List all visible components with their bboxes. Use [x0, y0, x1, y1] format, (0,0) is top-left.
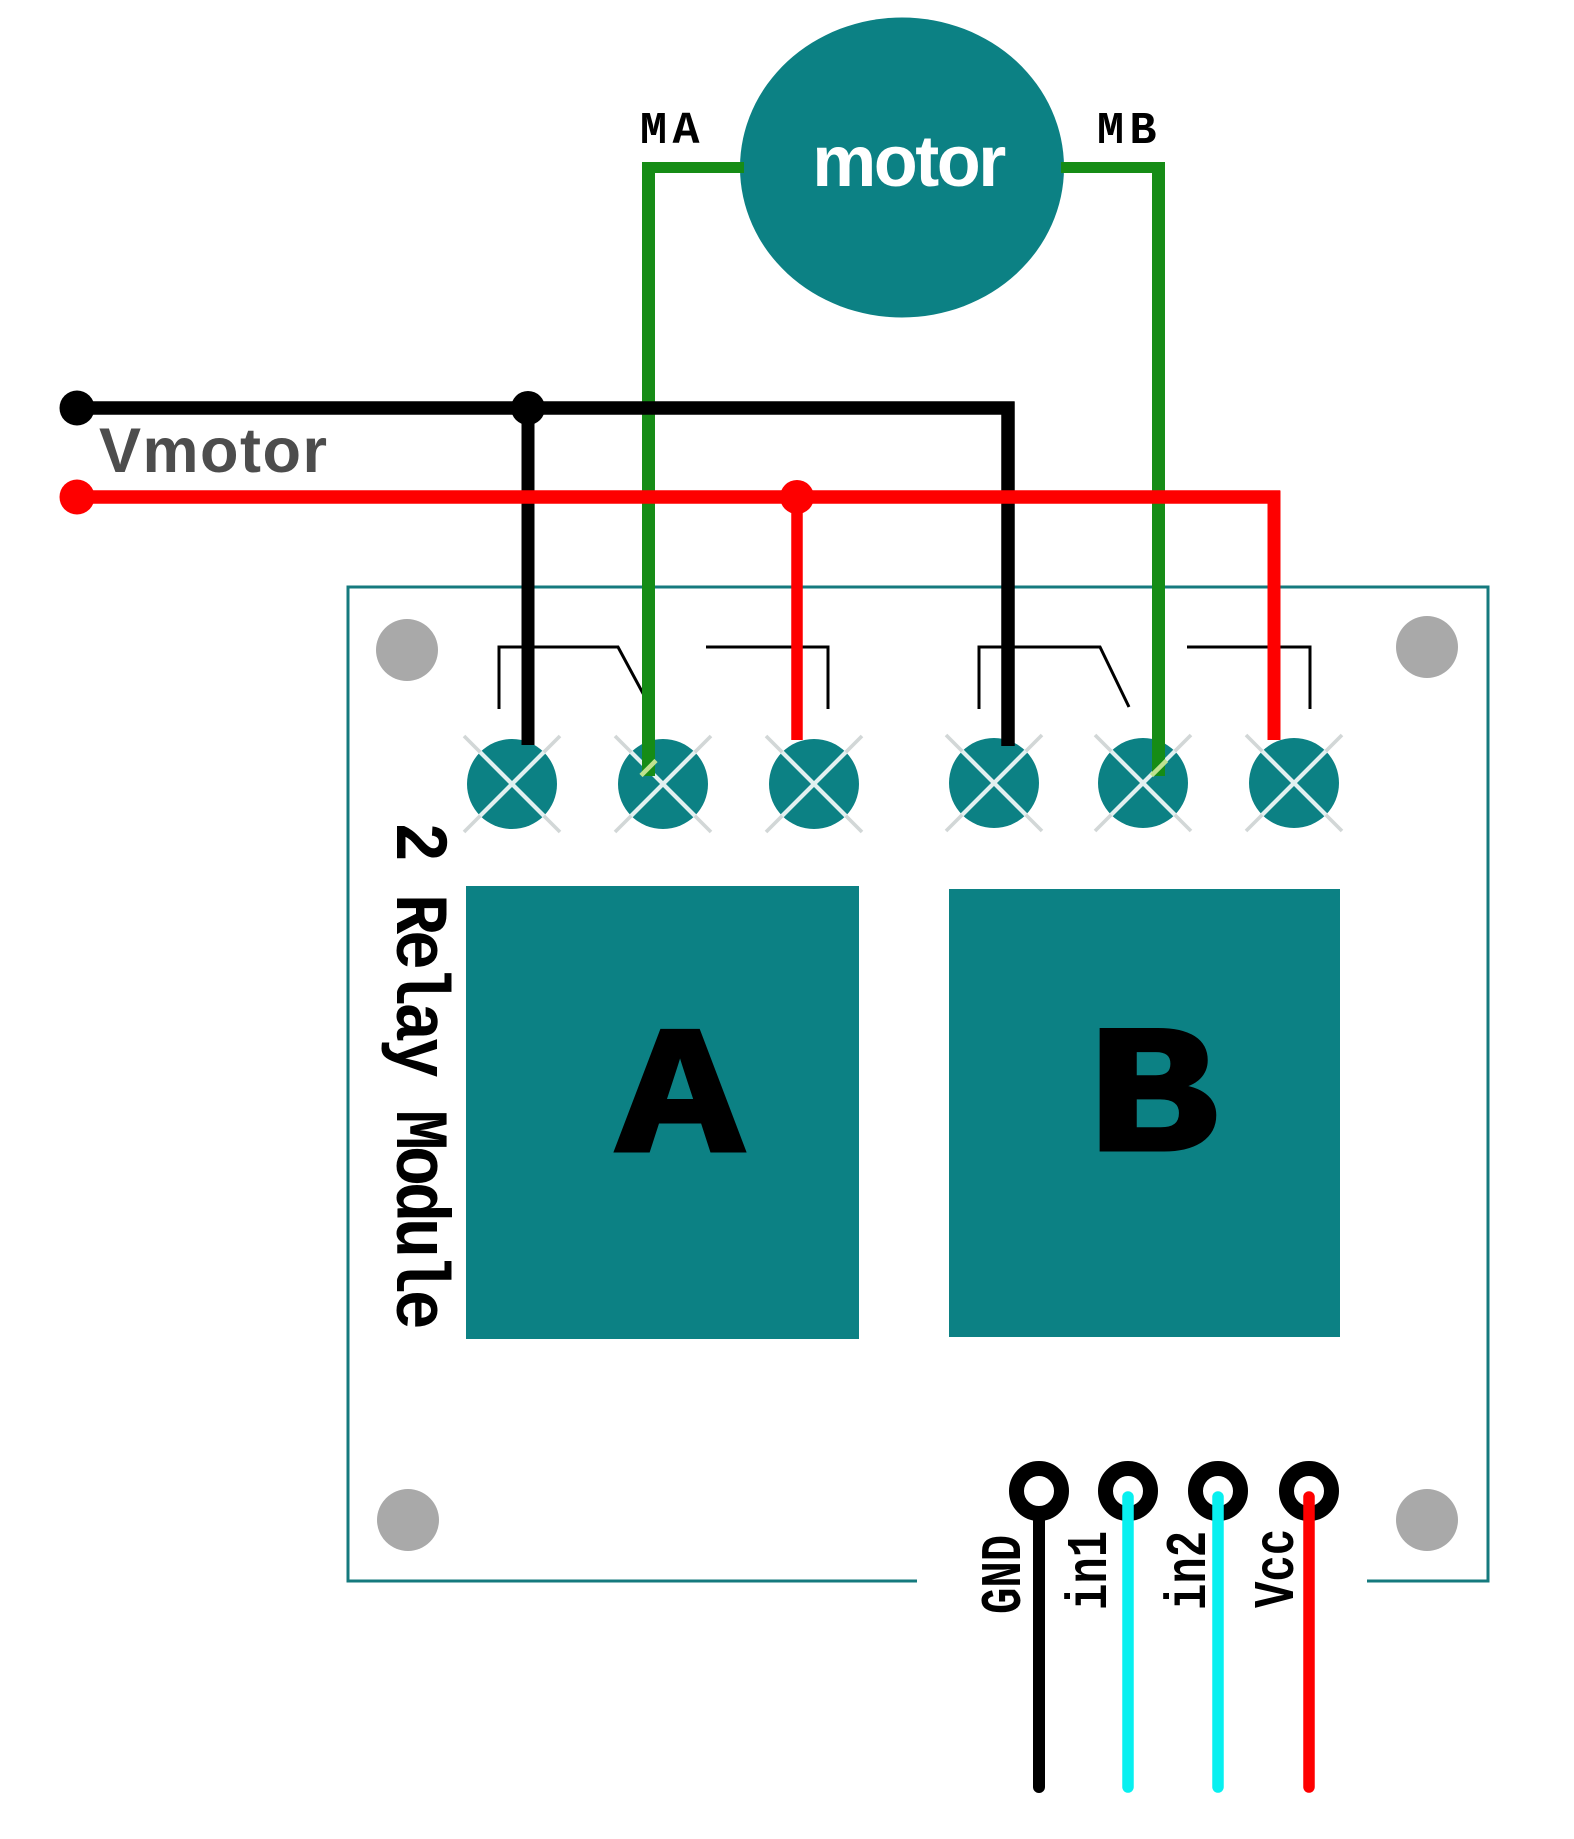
red wire vertical to terminal 6	[1268, 491, 1281, 741]
svg-text:B: B	[1088, 999, 1218, 1204]
pin Vcc ring	[1287, 1469, 1332, 1514]
pin in1 ring	[1106, 1469, 1151, 1514]
mounting hole top-left	[376, 619, 438, 681]
black wire endpoint dot	[60, 391, 95, 426]
terminal 1	[464, 736, 560, 832]
board outline	[348, 587, 1488, 1581]
terminal 6	[1246, 735, 1342, 831]
mounting hole bottom-left	[377, 1489, 439, 1551]
wire GND (black)	[1033, 1517, 1045, 1787]
svg-text:A: A	[617, 1000, 742, 1204]
green tip highlight B	[1152, 761, 1167, 776]
pin in2 ring	[1196, 1469, 1241, 1514]
svg-text:in1: in1	[1060, 1531, 1124, 1610]
terminal 5	[1095, 735, 1191, 831]
relay A body	[466, 886, 859, 1339]
svg-text:MB: MB	[1097, 106, 1162, 157]
red branch wire to terminal 3	[791, 497, 803, 740]
wire in2 (cyan)	[1212, 1497, 1224, 1787]
wire in1 (cyan)	[1122, 1497, 1134, 1787]
wire Vmotor positive (red)	[77, 490, 1280, 504]
svg-text:2 Relay Module: 2 Relay Module	[374, 822, 458, 1330]
terminal 3	[766, 736, 862, 832]
relay B contact symbol	[979, 647, 1310, 709]
red junction dot	[780, 480, 814, 514]
motor M1	[740, 18, 1064, 318]
mounting hole bottom-right	[1396, 1489, 1458, 1551]
svg-text:Vmotor: Vmotor	[99, 416, 329, 486]
wire Vcc (red)	[1303, 1497, 1315, 1787]
terminal 2	[615, 736, 711, 832]
red wire endpoint dot	[60, 480, 95, 515]
black junction dot	[511, 391, 545, 425]
mounting hole top-right	[1396, 616, 1458, 678]
svg-text:Vcc: Vcc	[1247, 1529, 1311, 1608]
relay A contact symbol	[499, 647, 828, 709]
terminal 4	[946, 735, 1042, 831]
green tip highlight A	[641, 761, 656, 776]
wire motor MB (green)	[1061, 162, 1165, 173]
wire motor MA (green)	[642, 162, 744, 173]
svg-text:MA: MA	[640, 106, 705, 157]
wire Vmotor negative (black)	[77, 402, 1015, 747]
svg-text:GND: GND	[974, 1535, 1038, 1614]
svg-text:motor: motor	[812, 122, 1005, 202]
svg-text:in2: in2	[1159, 1531, 1223, 1610]
pin GND ring	[1017, 1469, 1062, 1514]
relay B body	[949, 889, 1340, 1337]
black branch wire to terminal 1	[522, 408, 535, 745]
